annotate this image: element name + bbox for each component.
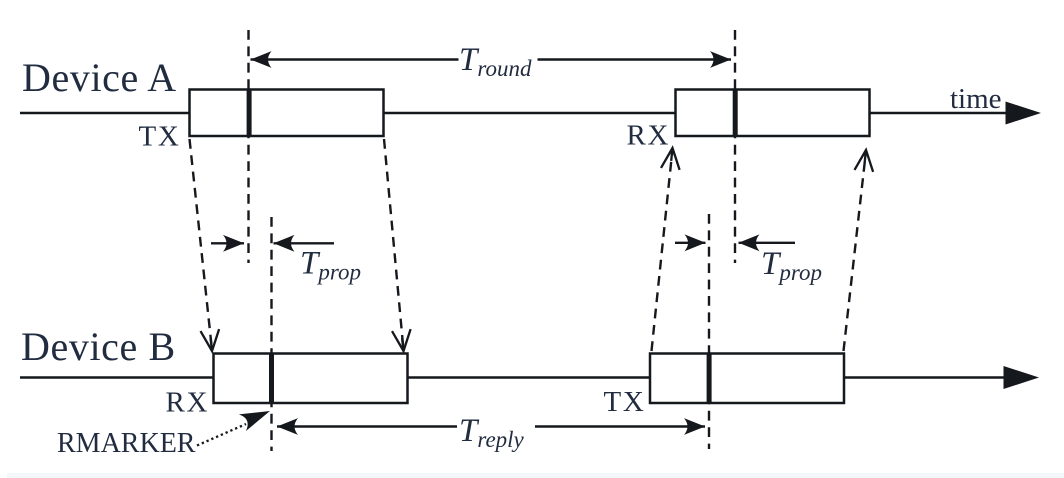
wire: dashed vertical reference line V3 (Device A RX RMARKER time) xyxy=(734,30,736,263)
RMARKER bar in box B2 xyxy=(707,354,712,404)
wire: Device A timeline xyxy=(20,112,1007,115)
wire: Device B timeline xyxy=(20,376,1005,379)
frame box B1 (RX frame on Device B) xyxy=(214,354,408,404)
svg-text:TX: TX xyxy=(604,386,646,418)
svg-text:time: time xyxy=(950,83,1002,115)
RMARKER bar in box A2 xyxy=(733,90,738,137)
svg-text:Tprop: Tprop xyxy=(300,246,361,285)
T_round dimension arrow right segment xyxy=(538,58,732,61)
T_prop right: left-pointing arrow xyxy=(739,242,796,244)
svg-text:TX: TX xyxy=(139,121,181,153)
wire: dashed diagonal D1 (A TX start to B RX start) xyxy=(190,139,213,350)
T_reply dimension arrow right segment xyxy=(535,425,705,428)
arrowhead of Device A timeline xyxy=(1006,102,1042,125)
arrowhead chevron of D4 xyxy=(855,150,874,172)
svg-text:Treply: Treply xyxy=(459,413,525,452)
frame box A1 (TX frame on Device A) xyxy=(190,90,384,137)
RMARKER bar in box B1 xyxy=(269,354,274,404)
svg-text:Device B: Device B xyxy=(21,324,176,369)
arrowhead of Device B timeline xyxy=(1004,366,1040,389)
T_prop left: left-pointing arrow xyxy=(274,242,335,244)
wire: dashed diagonal D4 (B TX end to A RX end) xyxy=(844,151,867,351)
RMARKER dotted pointer arrow xyxy=(197,424,246,446)
svg-text:Tprop: Tprop xyxy=(761,246,822,285)
svg-text:Tround: Tround xyxy=(459,42,532,81)
bottom tint band xyxy=(7,473,1064,478)
svg-text:RX: RX xyxy=(166,387,210,419)
T_prop right: right-pointing arrow xyxy=(675,242,706,244)
wire: dashed diagonal D2 (A TX end to B RX end) xyxy=(384,139,404,350)
svg-text:Device A: Device A xyxy=(22,55,177,100)
frame box B2 (TX frame on Device B) xyxy=(650,354,844,404)
wire: dashed vertical reference line V1 (Device A TX RMARKER time) xyxy=(247,30,249,263)
arrowhead chevron of D2 xyxy=(392,329,411,351)
arrowhead chevron of D3 xyxy=(661,148,680,170)
RMARKER bar in box A1 xyxy=(247,90,252,137)
wire: dashed diagonal D3 (B TX start to A RX start) xyxy=(652,149,673,351)
svg-text:RX: RX xyxy=(627,120,671,152)
svg-text:RMARKER: RMARKER xyxy=(57,428,196,459)
T_reply dimension arrow left segment xyxy=(277,425,457,428)
T_prop left: right-pointing arrow xyxy=(211,242,244,244)
arrowhead chevron of D1 xyxy=(201,329,220,351)
T_round dimension arrow left segment xyxy=(251,58,459,61)
wire: dashed vertical reference line V2 (Device B RX RMARKER time) xyxy=(270,217,272,451)
frame box A2 (RX frame on Device A) xyxy=(676,90,870,137)
wire: dashed vertical reference line V4 (Device B TX RMARKER time) xyxy=(708,214,710,449)
